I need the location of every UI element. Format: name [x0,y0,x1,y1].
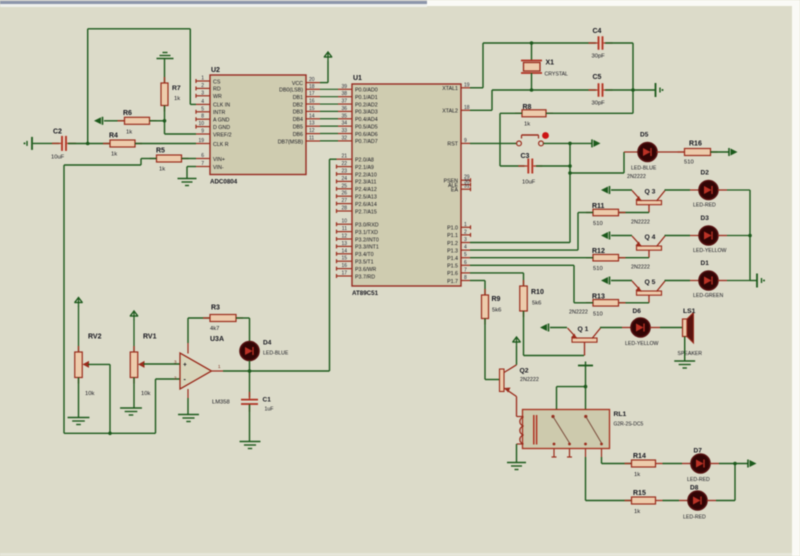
svg-text:1k: 1k [524,122,530,128]
svg-text:LED-RED: LED-RED [693,203,716,209]
relay pin stubs [552,449,602,458]
svg-text:P3.2/INT0: P3.2/INT0 [355,237,379,243]
resistor R13 [586,293,626,317]
svg-text:C3: C3 [521,153,530,160]
transistor Q4 2N2222 [631,220,665,258]
wire D7 to power arrow [710,463,748,465]
svg-text:2N2222: 2N2222 [631,265,650,271]
U2 right pins names numbers and stubs [278,77,320,145]
svg-text:CLK IN: CLK IN [213,103,230,109]
wire op-amp output to U1 P2.0 [223,159,337,371]
svg-text:X1: X1 [546,60,555,67]
wire U1 XTAL2 to C5 rail [470,90,596,110]
svg-text:P3.5/T1: P3.5/T1 [355,260,374,266]
wire CLK loop from C2 R4 node to U2 CLK IN [88,29,196,144]
svg-text:D4: D4 [263,340,272,347]
wire Q4 collector to D3 [665,235,691,237]
resistor R14 [625,453,663,478]
wire R15 to D8 [663,500,688,502]
svg-text:2N2222: 2N2222 [631,220,650,226]
svg-text:R9: R9 [492,296,501,303]
svg-text:10uF: 10uF [522,180,536,186]
svg-text:P0.5/AD5: P0.5/AD5 [355,124,378,130]
svg-text:Q 3: Q 3 [645,189,656,196]
diode D1 LED-GREEN [690,260,724,299]
svg-text:VIN+: VIN+ [213,157,225,163]
red indicator dot of button [542,132,549,139]
resistor R5 [150,148,189,173]
ground below RV2 [68,378,90,425]
ground right of LED rail [757,274,765,288]
svg-text:D2: D2 [701,170,710,177]
svg-text:RST: RST [447,142,458,148]
diode D4 LED-BLUE [240,340,289,361]
svg-text:SPEAKER: SPEAKER [678,351,703,357]
svg-text:LED-YELLOW: LED-YELLOW [693,248,727,254]
node junction RST net [568,142,572,146]
svg-text:R16: R16 [689,141,702,148]
svg-text:P2.7/A15: P2.7/A15 [355,209,377,215]
svg-text:+: + [183,362,187,369]
svg-text:D3: D3 [701,215,710,222]
diode D8 LED-RED [683,485,707,521]
svg-text:U2: U2 [211,67,220,74]
diode D7 LED-RED [687,448,710,484]
node junction output [248,369,252,373]
wire ground to R7 [164,59,166,84]
resistor R8 [515,104,553,128]
U1 left pins P3 port names numbers stubs [337,219,379,281]
svg-text:1k: 1k [111,152,117,158]
svg-text:LM358: LM358 [212,400,230,406]
svg-text:P0.1/AD1: P0.1/AD1 [355,95,378,101]
resistor R9 [482,289,502,325]
ground below U2 VIN- [178,167,197,186]
svg-text:C5: C5 [593,74,602,81]
wire RV1 wiper to op-amp noninverting input [144,363,181,365]
wire R9 to Q2 base [485,319,500,380]
node junction D3 rail [748,234,752,238]
ground above R7 [157,53,174,59]
U1 left pins P0 port names numbers stubs [338,84,378,145]
wire Q1 collector to D6 [600,327,631,329]
svg-text:P2.2/A10: P2.2/A10 [355,172,377,178]
svg-text:A GND: A GND [213,118,230,124]
svg-text:LED-YELLOW: LED-YELLOW [625,341,659,347]
resistor R3 [203,305,243,333]
svg-text:1k: 1k [159,167,165,173]
wire LED cathode rail [749,190,751,281]
svg-text:DB3: DB3 [293,110,303,116]
capacitor C1 [241,392,273,413]
svg-text:2N2222: 2N2222 [569,310,588,316]
svg-text:P3.7/RD: P3.7/RD [355,274,375,280]
wire terminal to C2 [33,142,59,144]
resistor R16 [678,141,718,166]
svg-text:R4: R4 [109,133,118,140]
resistor R11 [586,203,626,227]
svg-text:30pF: 30pF [592,101,606,107]
svg-text:LS1: LS1 [683,308,696,315]
svg-text:Q 1: Q 1 [578,326,589,333]
wire arrow to R6 [104,120,125,122]
svg-text:P2.5/A13: P2.5/A13 [355,195,377,201]
wire rail to ground bar [750,280,757,282]
svg-text:P3.4/T0: P3.4/T0 [355,252,374,258]
svg-text:P1.1: P1.1 [447,233,458,239]
capacitor C4 [589,28,613,60]
svg-text:10k: 10k [141,391,150,397]
svg-text:P1.7: P1.7 [447,279,458,285]
wire output node to C1 [249,371,251,398]
svg-text:VCC: VCC [292,81,303,87]
svg-text:XTAL1: XTAL1 [442,86,458,92]
wire U1 XTAL1 to C4 rail [470,43,596,88]
svg-text:2N2222: 2N2222 [520,377,539,383]
svg-text:XTAL2: XTAL2 [442,109,458,115]
svg-text:VREF/2: VREF/2 [213,132,232,138]
svg-text:510: 510 [593,266,603,272]
power arrow left of transistor Q3 [601,186,610,194]
svg-text:Q 4: Q 4 [645,234,656,241]
resistor R6 [118,110,157,136]
wire R3 to D4 [236,318,250,342]
svg-text:P3.6/WR: P3.6/WR [355,267,376,273]
wire op-amp top pin to R3 [188,318,210,343]
svg-text:5k6: 5k6 [532,301,541,307]
power arrow right after R16 [729,148,738,156]
svg-text:P0.6/AD6: P0.6/AD6 [355,132,378,138]
svg-text:P0.0/AD0: P0.0/AD0 [355,88,378,94]
relay RL1 G2R-2S-DC5 [517,410,644,449]
wire C5 to ground bar [605,89,655,91]
transistor Q5 2N2222 [631,265,665,303]
wire D6 to speaker [650,327,683,329]
svg-text:P1.0: P1.0 [447,226,458,232]
svg-text:R6: R6 [123,110,132,117]
svg-text:510: 510 [593,221,603,227]
svg-text:LED-GREEN: LED-GREEN [693,293,724,299]
resistor R4 [103,133,142,158]
svg-text:1uF: 1uF [265,407,274,413]
svg-text:P2.1/A9: P2.1/A9 [355,165,374,171]
svg-text:R12: R12 [592,248,605,255]
resistor R10 [520,280,544,317]
svg-text:DB0(LSB): DB0(LSB) [279,88,303,94]
wire D4 to output node [249,361,251,372]
potentiometer RV1 [130,320,156,398]
wire relay contact to R15 [586,457,632,501]
svg-text:1k: 1k [634,509,640,515]
node junction crystal bottom [530,88,534,92]
U1 left pins P2 port names numbers stubs [337,154,377,216]
wire P1.7 to R9 [470,281,485,296]
svg-text:2N2222: 2N2222 [627,174,646,180]
svg-text:10k: 10k [85,391,94,397]
node junction RV2 bus [108,432,112,436]
svg-text:10uF: 10uF [51,155,65,161]
power arrow above Q2 [512,337,520,365]
svg-text:R13: R13 [592,293,605,300]
svg-text:C2: C2 [53,129,62,136]
speaker LS1 [678,308,703,357]
svg-text:P2.4/A12: P2.4/A12 [355,187,377,193]
transistor Q2 2N2222 [500,365,539,397]
svg-text:DB6: DB6 [293,132,303,138]
svg-text:ADC0804: ADC0804 [210,179,238,186]
svg-text:1k: 1k [634,472,640,478]
wire R4 to U2 CLK R [135,143,196,145]
wire arrow to Q5 emitter [611,280,632,282]
wire C4 to right rail [605,43,633,113]
svg-text:C1: C1 [263,397,272,404]
ground below relay coil [507,463,526,470]
svg-text:Q 5: Q 5 [645,279,656,286]
svg-text:P0.3/AD3: P0.3/AD3 [355,110,378,116]
svg-text:R11: R11 [592,203,605,210]
push button reset switch [517,135,544,146]
wire R5 to U2 VIN+ [182,158,197,160]
svg-text:DB2: DB2 [293,102,303,108]
svg-text:P1.4: P1.4 [447,256,458,262]
svg-text:1k: 1k [174,96,180,102]
svg-text:DB4: DB4 [293,117,303,123]
svg-text:510: 510 [593,311,603,317]
svg-text:R10: R10 [531,289,544,296]
power bar above relay [578,362,593,387]
ground right of C5 [656,83,664,97]
svg-text:1k: 1k [126,130,132,136]
svg-text:D8: D8 [690,485,699,492]
svg-text:Q2: Q2 [520,368,529,375]
wire Q3 collector to D2 [665,189,691,191]
wire button to power arrow [544,142,593,144]
diode D2 LED-RED [690,170,718,209]
svg-text:D GND: D GND [213,125,230,131]
power arrow right on RST net [592,139,601,147]
wire D1 to cathode rail [718,280,750,282]
svg-text:DB7(MSB): DB7(MSB) [278,139,304,145]
power VCC arrow for U2 pin 20 [320,52,332,83]
wire P1.5 to R13 [470,265,593,303]
svg-text:P2.6/A14: P2.6/A14 [355,202,377,208]
svg-text:30pF: 30pF [592,54,606,60]
svg-text:P0.7/AD7: P0.7/AD7 [355,139,378,145]
svg-text:D6: D6 [633,308,642,315]
svg-text:R14: R14 [633,453,646,460]
capacitor C5 [589,74,613,107]
power arrow left of R6 [94,117,103,125]
svg-text:G2R-2S-DC5: G2R-2S-DC5 [614,422,644,428]
svg-text:DB1: DB1 [293,95,303,101]
svg-text:P2.0/A8: P2.0/A8 [355,158,374,164]
ground below C1 [240,405,261,449]
resistor R12 [586,248,626,272]
wire inverting input to bus [156,379,181,433]
wire R7 to U2 VREF/2 [165,106,197,135]
wire branch to D5 [570,152,624,173]
wire R10 to Q1 base [524,311,585,356]
ground below RV1 [120,378,142,416]
diode D6 LED-YELLOW [625,308,659,347]
svg-text:U3A: U3A [210,336,224,343]
wire to D5 anode [624,151,639,153]
wire Q3 base to R11 [619,212,650,214]
resistor R7 [161,77,181,112]
wire P1.3 to R11 [470,213,593,251]
svg-text:R7: R7 [172,85,181,92]
wire U1 RST to push button [470,142,517,144]
power arrow left of Q1 [540,324,549,332]
wire relay coil to ground [516,444,518,463]
crystal X1 [521,43,568,90]
svg-text:RV1: RV1 [143,334,157,341]
svg-text:P3.1/TXD: P3.1/TXD [355,230,378,236]
svg-text:P1.3: P1.3 [447,248,458,254]
wire R8 left down to C3 [500,113,525,166]
power arrow right of D7 [748,460,757,468]
wire D3 to cathode rail [718,235,750,237]
svg-text:LED-BLUE: LED-BLUE [263,351,289,357]
wire C2 to R4 [68,143,110,145]
svg-text:VIN-: VIN- [213,165,224,171]
diode D5 LED-BLUE [631,132,657,172]
svg-text:P3.3/INT1: P3.3/INT1 [355,245,379,251]
IC U2 ADC0804 body [210,67,306,186]
U1 right pins names numbers stubs [442,82,470,284]
capacitor C3 [518,153,542,186]
node junction D5 branch [568,171,572,175]
wire C3 to RST net [536,165,570,167]
svg-text:LED-BLUE: LED-BLUE [631,166,657,172]
resistor R15 [625,490,663,515]
wire arrow to Q4 emitter [611,235,632,237]
svg-text:RV2: RV2 [88,334,102,341]
op-amp U3A [174,336,230,406]
svg-text:P0.2/AD2: P0.2/AD2 [355,102,378,108]
wire RST net down to P1.2 [470,143,570,242]
svg-text:D5: D5 [640,132,649,139]
svg-text:DB5: DB5 [293,125,303,131]
potentiometer RV2 [75,306,102,397]
wire R16 to power arrow [711,151,730,153]
node junction D7 D8 rail [733,462,737,466]
svg-text:R5: R5 [156,148,165,155]
svg-text:R8: R8 [523,104,532,111]
svg-text:P0.4/AD4: P0.4/AD4 [355,117,378,123]
wire R14 to D7 [663,463,691,465]
svg-text:CLK R: CLK R [213,142,229,148]
wire power to relay poles [557,387,586,417]
svg-text:CS: CS [213,79,221,85]
wire arrow to Q3 emitter [611,189,632,191]
wire Q5 collector to D1 [665,280,691,282]
capacitor C2 [51,129,76,161]
svg-text:P3.0/RXD: P3.0/RXD [355,223,379,229]
wire arrow to Q1 [550,327,567,329]
wire D2 to cathode rail [718,189,750,191]
wire R6 to R7 net [150,120,165,122]
svg-text:510: 510 [684,160,694,166]
svg-text:D7: D7 [694,448,703,455]
power arrow above RV1 [130,311,138,320]
node junction C3 branch [568,164,572,168]
power arrow above RV2 [74,298,82,307]
power arrow left of transistor Q4 [601,232,610,240]
wire Q2 emitter to relay coil [516,397,518,417]
svg-text:4k7: 4k7 [210,326,219,332]
IC U1 AT89C51 body [352,75,461,297]
transistor Q3 2N2222 [627,174,665,213]
wire D8 to rail [707,464,735,501]
wire R5 left to bottom signal bus [64,159,157,434]
svg-text:INTR: INTR [213,110,226,116]
svg-text:RL1: RL1 [614,411,627,418]
wire R8 right to ground rail [546,112,633,114]
wire P1.6 to R10 [470,273,524,286]
wire Q4 base to R12 [619,257,650,259]
svg-text:5k6: 5k6 [492,308,501,314]
node junction at C2 R4 wire [86,142,90,146]
ground terminal left of C2 [24,137,33,150]
ground below op-amp [178,398,199,422]
svg-text:P1.2: P1.2 [447,241,458,247]
wire speaker to ground [684,337,686,362]
svg-text:P1.6: P1.6 [447,271,458,277]
svg-text:CRYSTAL: CRYSTAL [545,72,569,78]
svg-text:EA: EA [451,188,459,194]
wire relay contact to R14 [602,457,632,464]
node junction crystal top [530,41,534,45]
svg-text:WR: WR [213,94,222,100]
svg-text:LED-RED: LED-RED [683,515,706,521]
svg-text:LED-RED: LED-RED [687,477,710,483]
wire data bus DB0-DB7 between U2 and U1 [320,89,338,141]
diode D3 LED-YELLOW [690,215,727,254]
wire Q5 base to R13 [619,302,650,304]
svg-text:R3: R3 [211,305,220,312]
svg-text:U1: U1 [353,75,362,82]
wire D5 to R16 [657,151,685,153]
power arrow left of transistor Q5 [601,277,610,285]
U2 left pins names numbers and stubs [196,76,232,171]
svg-text:R15: R15 [633,490,646,497]
ground below speaker [674,361,695,368]
node junction relay power [584,385,588,389]
svg-text:C4: C4 [593,28,602,35]
node junction C5 rail [631,88,635,92]
svg-text:AT89C51: AT89C51 [352,290,379,297]
wire P1.4 to R12 [470,257,593,259]
svg-text:D1: D1 [701,260,710,267]
transistor Q1 2N2222 [568,310,601,356]
svg-text:P1.5: P1.5 [447,264,458,270]
svg-text:P2.3/A11: P2.3/A11 [355,180,376,186]
svg-text:RD: RD [213,87,221,93]
wire RV2 wiper to bus [88,364,110,433]
node junction R6 R7 [163,119,167,123]
